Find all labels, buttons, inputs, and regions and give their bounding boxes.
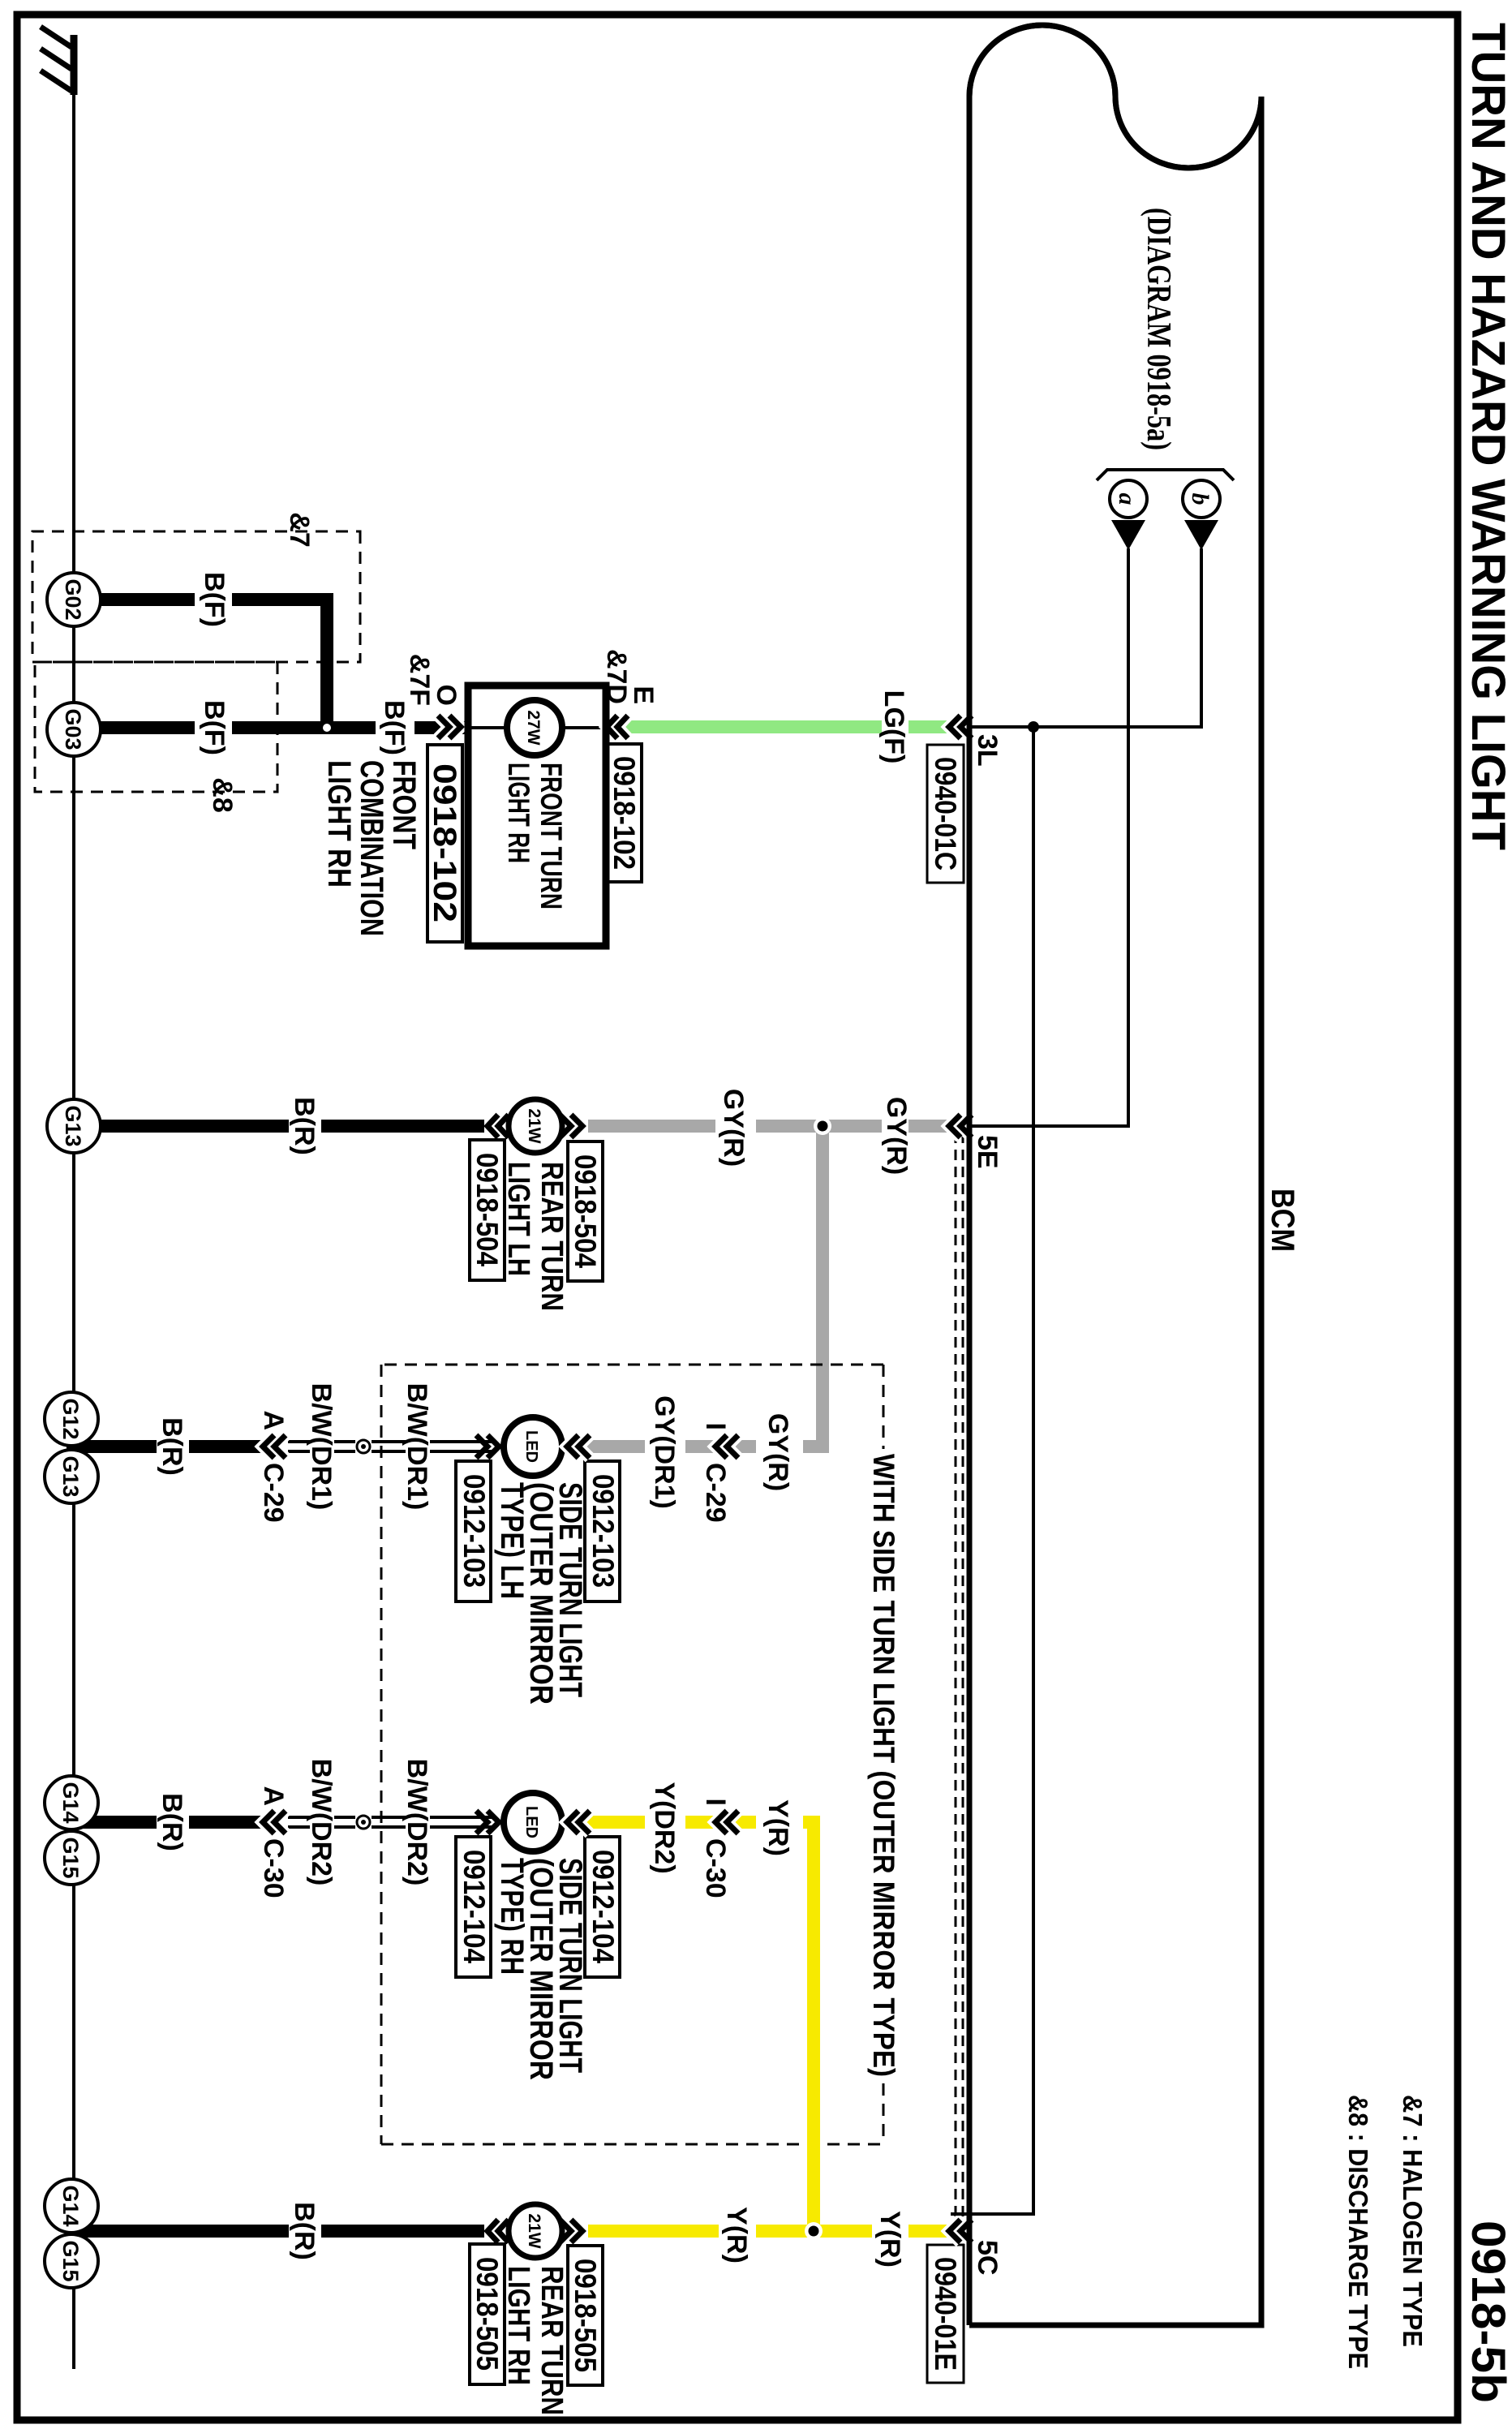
- small connector circle on B/W(DR2): [357, 1816, 370, 1829]
- svg-text:G15: G15: [58, 1837, 83, 1878]
- chevron pair above rear RH lamp (pointing up): [560, 2220, 582, 2242]
- svg-text:G14: G14: [58, 2185, 83, 2226]
- svg-text:0940-01E: 0940-01E: [929, 2257, 962, 2371]
- yellow branch wire Y(R) to rear RH column: [803, 1822, 814, 2231]
- wire B(R) from G13 to rear turn light LH: [101, 1120, 484, 1133]
- chevron pair at front light pin O (pointing up): [438, 716, 461, 738]
- svg-text:0912-103: 0912-103: [586, 1474, 620, 1588]
- twin thin wire B/W(DR1): [288, 1442, 495, 1451]
- svg-text:0918-102: 0918-102: [427, 763, 462, 922]
- chassis ground symbol: [41, 27, 74, 95]
- svg-text:B/W(DR2): B/W(DR2): [402, 1759, 432, 1886]
- svg-text:Y(R): Y(R): [762, 1799, 793, 1856]
- chevron pair below side RH LED (pointing up): [476, 1811, 499, 1834]
- front combination light box restroke: [468, 686, 606, 946]
- BCM internal wire a to 5E: [972, 548, 1128, 1126]
- wire Y(DR2) yellow from side RH LED up: [565, 1816, 756, 1829]
- svg-text:B/W(DR1): B/W(DR1): [306, 1383, 337, 1511]
- svg-text:B/W(DR2): B/W(DR2): [306, 1759, 337, 1886]
- dashed box WITH SIDE TURN LIGHT (OUTER MIRROR TYPE): [381, 1365, 883, 2144]
- chevron pair below rear LH lamp (pointing down): [488, 1115, 509, 1137]
- svg-text:B(F): B(F): [199, 700, 230, 755]
- svg-text:B/W(DR1): B/W(DR1): [402, 1383, 432, 1511]
- svg-text:LED: LED: [522, 1430, 540, 1463]
- thin stub from box top to bulb: [560, 726, 606, 729]
- wire B(R) from G14/G15 to rear turn light RH: [76, 2225, 484, 2238]
- thin stub from bulb to box bottom: [468, 726, 509, 729]
- boxed label 0918-504 lower: [470, 1140, 505, 1280]
- ground G15 (side RH): [45, 1831, 98, 1885]
- ground G13: [47, 1099, 101, 1153]
- svg-text:0918-102: 0918-102: [608, 756, 641, 870]
- ground G02: [47, 573, 101, 626]
- svg-text:&7: &7: [284, 512, 315, 547]
- svg-text:LED: LED: [522, 1806, 540, 1838]
- text FRONT COMBINATION LIGHT RH: [321, 760, 422, 936]
- svg-text:B(F): B(F): [199, 572, 230, 627]
- svg-text:0912-104: 0912-104: [586, 1850, 620, 1963]
- boxed label 0912-104 lower: [456, 1837, 491, 1977]
- svg-text:0912-104: 0912-104: [457, 1850, 491, 1963]
- small connector circle on B/W(DR1): [357, 1440, 370, 1453]
- lamp 21W rear turn light RH: [509, 2204, 562, 2258]
- svg-text:B(R): B(R): [157, 1793, 187, 1851]
- svg-text:27W: 27W: [524, 710, 543, 745]
- svg-text:3L: 3L: [972, 734, 1003, 767]
- arrow b: [1184, 520, 1218, 550]
- ground G14 (rear RH): [45, 2179, 98, 2233]
- chevron at BCM pin 3L (pointing down): [949, 716, 972, 738]
- chevron pair at connector C-29 pin A (pointing down): [263, 1435, 286, 1458]
- ground bus wire: [72, 77, 75, 2369]
- svg-text:I: I: [700, 1423, 731, 1430]
- svg-text:G03: G03: [61, 708, 85, 750]
- svg-text:REAR TURN: REAR TURN: [535, 2266, 569, 2415]
- svg-text:0918-5b: 0918-5b: [1462, 2220, 1512, 2403]
- gray branch wire GY(R) to side turn LH: [803, 1126, 823, 1447]
- svg-text:C-30: C-30: [700, 1838, 731, 1898]
- wire Y(R) yellow from rear RH lamp to BCM 5C: [588, 2225, 970, 2238]
- LED side turn light RH: [504, 1793, 562, 1851]
- junction G02/G03 wires (white dot): [323, 724, 331, 732]
- chevron pair below rear RH lamp (pointing down): [488, 2220, 509, 2242]
- ground G13 (pair): [45, 1450, 98, 1503]
- svg-text:21W: 21W: [525, 2213, 543, 2248]
- text REAR TURN LIGHT RH: [501, 2266, 569, 2415]
- svg-text:G14: G14: [58, 1782, 83, 1823]
- svg-text:B(R): B(R): [289, 2202, 320, 2260]
- svg-text:&8 : DISCHARGE TYPE: &8 : DISCHARGE TYPE: [1343, 2095, 1373, 2369]
- svg-text:GY(R): GY(R): [881, 1097, 912, 1175]
- wire B(R) from G12/G13 to side turn LH: [67, 1440, 268, 1453]
- svg-text:TYPE) RH: TYPE) RH: [494, 1858, 530, 1975]
- svg-text:FRONT TURN: FRONT TURN: [535, 763, 568, 909]
- svg-text:b: b: [1187, 493, 1213, 505]
- svg-text:(DIAGRAM 0918-5a): (DIAGRAM 0918-5a): [1140, 208, 1177, 450]
- svg-text:Y(R): Y(R): [874, 2211, 905, 2268]
- svg-text:COMBINATION: COMBINATION: [354, 760, 389, 936]
- bracket for a/b: [1097, 470, 1234, 480]
- svg-text:TYPE) LH: TYPE) LH: [494, 1482, 530, 1599]
- svg-text:0918-504: 0918-504: [569, 1154, 602, 1268]
- ground G14 (side RH): [45, 1776, 98, 1829]
- dashed box &7: [32, 531, 360, 662]
- svg-text:LIGHT RH: LIGHT RH: [502, 763, 535, 863]
- text REAR TURN LIGHT LH: [501, 1162, 569, 1311]
- svg-text:21W: 21W: [525, 1108, 543, 1143]
- wire GY(R) gray from rear LH lamp to BCM 5E: [588, 1120, 970, 1133]
- boxed label 0918-505 upper: [568, 2246, 603, 2385]
- wire B(F) from G02 (up then right to G03 column): [101, 600, 327, 728]
- chevron at BCM pin 5E (pointing down): [949, 1115, 972, 1137]
- svg-text:B(R): B(R): [157, 1417, 187, 1476]
- svg-text:0918-505: 0918-505: [470, 2257, 504, 2371]
- circle a: [1110, 480, 1147, 518]
- chevron at BCM pin 5C (pointing down): [949, 2220, 972, 2242]
- svg-text:G13: G13: [61, 1105, 85, 1146]
- boxed label 0912-103 lower: [456, 1461, 491, 1601]
- BCM internal junction dot: [1028, 721, 1039, 733]
- svg-text:LIGHT LH: LIGHT LH: [501, 1162, 535, 1276]
- svg-text:0912-103: 0912-103: [457, 1474, 491, 1588]
- lamp 21W rear turn light LH: [509, 1099, 562, 1153]
- svg-text:0918-505: 0918-505: [569, 2259, 602, 2372]
- dashed box &8: [35, 662, 277, 792]
- junction dot on gray wire: [814, 1117, 831, 1135]
- boxed label 0940-01C: [927, 745, 964, 883]
- svg-text:C-30: C-30: [258, 1838, 289, 1898]
- ground G03: [47, 703, 101, 756]
- svg-text:REAR TURN: REAR TURN: [535, 1162, 569, 1311]
- chevron pair at connector C-30 pin A (pointing down): [263, 1811, 286, 1834]
- chevron pair at front light pin E (pointing down): [607, 716, 628, 738]
- svg-text:FRONT: FRONT: [386, 760, 422, 849]
- svg-text:&7 : HALOGEN TYPE: &7 : HALOGEN TYPE: [1398, 2095, 1428, 2347]
- svg-text:Y(DR2): Y(DR2): [649, 1782, 680, 1873]
- BCM internal wire to 5C pin: [951, 727, 1033, 2214]
- boxed label 0918-505 lower: [470, 2244, 505, 2384]
- chevron pair at connector C-29 pin I (pointing down): [715, 1435, 738, 1458]
- junction dot on yellow wire: [805, 2222, 823, 2240]
- BCM box outline: [969, 25, 1261, 2325]
- BCM box outline restroke: [969, 25, 1261, 2325]
- svg-text:LG(F): LG(F): [878, 690, 909, 764]
- svg-text:I: I: [700, 1799, 731, 1806]
- wire B(F) from G03 up to front light: [101, 721, 468, 734]
- svg-text:G15: G15: [58, 2240, 83, 2281]
- svg-text:G02: G02: [61, 578, 85, 620]
- bulb 27W front turn light: [507, 700, 562, 755]
- svg-text:WITH SIDE TURN LIGHT (OUTER MI: WITH SIDE TURN LIGHT (OUTER MIRROR TYPE): [867, 1454, 900, 2077]
- svg-text:A: A: [258, 1786, 289, 1806]
- svg-text:BCM: BCM: [1265, 1189, 1300, 1252]
- BCM internal wire b to 3L: [1033, 548, 1201, 727]
- boxed label 0940-01E: [927, 2245, 964, 2383]
- arrow a: [1111, 520, 1145, 550]
- boxed label 0912-103 upper: [585, 1461, 620, 1601]
- twin thin wire B/W(DR2): [288, 1817, 495, 1827]
- text SIDE TURN LIGHT (OUTER MIRROR TYPE) LH: [494, 1482, 588, 1705]
- svg-text:B(F): B(F): [379, 700, 410, 755]
- LED side turn light LH: [504, 1417, 562, 1476]
- svg-text:A: A: [258, 1410, 289, 1430]
- svg-text:a: a: [1114, 493, 1140, 505]
- svg-text:GY(R): GY(R): [718, 1089, 749, 1167]
- boxed label 0918-102 upper: [607, 744, 642, 882]
- ground G12 (pair): [45, 1392, 98, 1446]
- svg-text:TURN AND HAZARD WARNING LIGHT: TURN AND HAZARD WARNING LIGHT: [1462, 23, 1512, 850]
- svg-text:G13: G13: [58, 1455, 83, 1497]
- svg-text:C-29: C-29: [258, 1463, 289, 1523]
- svg-text:&8: &8: [207, 777, 238, 812]
- svg-text:LIGHT RH: LIGHT RH: [321, 760, 357, 888]
- circle b: [1183, 480, 1220, 518]
- text SIDE TURN LIGHT (OUTER MIRROR TYPE) RH: [494, 1858, 588, 2080]
- svg-text:0918-504: 0918-504: [470, 1153, 504, 1266]
- BCM internal wire from 3L pin: [972, 725, 1033, 729]
- svg-text:Y(R): Y(R): [721, 2207, 752, 2263]
- svg-text:C-29: C-29: [700, 1463, 731, 1523]
- chevron pair below side LH LED (pointing up): [476, 1435, 499, 1458]
- svg-text:B(R): B(R): [289, 1097, 320, 1155]
- svg-text:5C: 5C: [972, 2240, 1003, 2275]
- chevron pair at connector C-30 pin I (pointing down): [715, 1811, 738, 1834]
- boxed label 0918-504 upper: [568, 1141, 603, 1281]
- front combination light box: [468, 686, 606, 946]
- svg-text:&7F: &7F: [404, 654, 435, 706]
- ground G15 (rear RH): [45, 2234, 98, 2288]
- svg-text:GY(DR1): GY(DR1): [649, 1395, 680, 1509]
- chevron pair above side RH LED (pointing down): [567, 1811, 590, 1834]
- wire LG(F) green from BCM 3L to front light: [606, 720, 970, 733]
- chevron pair above rear LH lamp (pointing up): [560, 1115, 582, 1137]
- svg-text:LIGHT RH: LIGHT RH: [501, 2266, 535, 2385]
- svg-text:GY(R): GY(R): [762, 1413, 793, 1491]
- svg-text:5E: 5E: [972, 1135, 1003, 1169]
- boxed label 0912-104 upper: [585, 1837, 620, 1977]
- svg-text:G12: G12: [58, 1398, 83, 1439]
- chevron pair above side LH LED (pointing down): [567, 1435, 590, 1458]
- dashed optional wire pair below BCM edge: [956, 1133, 963, 2226]
- svg-text:0940-01C: 0940-01C: [929, 757, 962, 871]
- boxed label 0918-102 lower: [427, 745, 462, 942]
- wire B(R) from G14/G15 to side turn RH: [67, 1816, 268, 1829]
- wire GY(DR1) gray from side LH LED up: [565, 1440, 756, 1453]
